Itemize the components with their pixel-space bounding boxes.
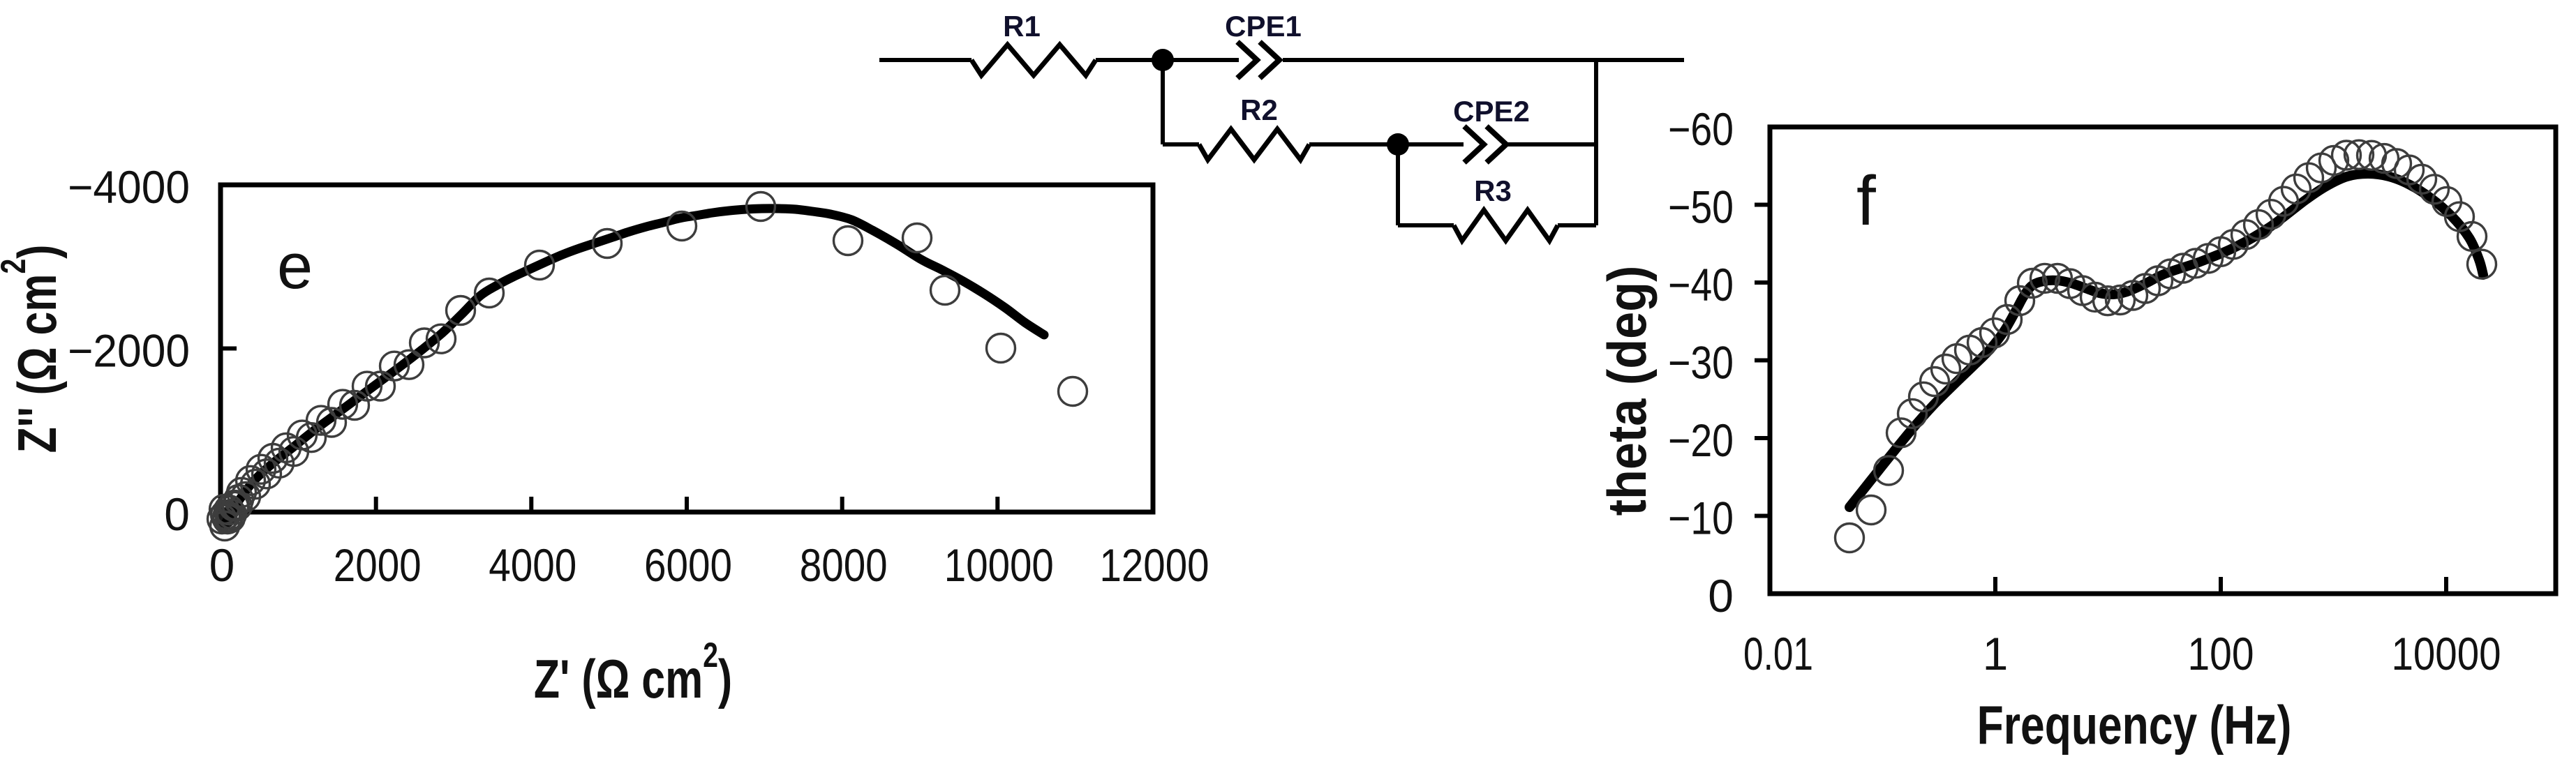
svg-text:−10: −10: [1668, 493, 1734, 544]
svg-text:CPE1: CPE1: [1225, 10, 1302, 43]
svg-text:12000: 12000: [1100, 539, 1209, 591]
svg-text:CPE2: CPE2: [1453, 95, 1530, 128]
svg-text:−30: −30: [1668, 337, 1734, 389]
svg-text:−4000: −4000: [68, 161, 190, 213]
svg-text:−60: −60: [1668, 103, 1734, 155]
svg-text:f: f: [1856, 162, 1876, 240]
svg-text:1: 1: [1983, 628, 2009, 679]
svg-text:8000: 8000: [800, 539, 888, 591]
svg-text:0: 0: [1708, 570, 1734, 622]
svg-text:10000: 10000: [944, 539, 1054, 591]
svg-text:−20: −20: [1668, 414, 1734, 466]
svg-text:R3: R3: [1474, 174, 1512, 207]
svg-text:0: 0: [164, 488, 190, 540]
svg-text:−50: −50: [1668, 181, 1734, 233]
svg-text:theta (deg): theta (deg): [1597, 266, 1658, 516]
svg-text:Z'' (Ω cm2): Z'' (Ω cm2): [0, 245, 68, 453]
svg-text:2000: 2000: [334, 539, 422, 591]
svg-text:6000: 6000: [644, 539, 732, 591]
svg-text:R2: R2: [1240, 93, 1278, 126]
svg-text:−40: −40: [1668, 259, 1734, 310]
svg-text:e: e: [277, 231, 313, 302]
svg-text:4000: 4000: [489, 539, 576, 591]
svg-text:R1: R1: [1003, 10, 1041, 43]
svg-text:0: 0: [209, 539, 235, 591]
svg-text:10000: 10000: [2392, 628, 2501, 679]
svg-text:Frequency (Hz): Frequency (Hz): [1977, 694, 2292, 755]
svg-text:0.01: 0.01: [1743, 628, 1813, 679]
svg-text:100: 100: [2188, 628, 2254, 679]
svg-text:−2000: −2000: [68, 325, 190, 377]
